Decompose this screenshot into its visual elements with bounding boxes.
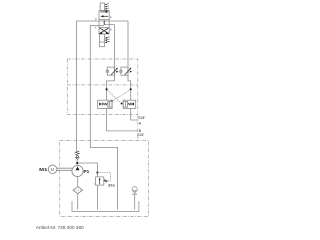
svg-text:G3/8'': G3/8'' bbox=[137, 133, 144, 137]
svg-text:M: M bbox=[51, 167, 55, 172]
svg-text:Artikel-Nr. 728 000 380: Artikel-Nr. 728 000 380 bbox=[36, 225, 84, 230]
svg-text:M1: M1 bbox=[39, 167, 48, 172]
svg-text:G3/8'': G3/8'' bbox=[138, 116, 145, 120]
svg-text:180bar: 180bar bbox=[108, 183, 116, 187]
svg-text:A: A bbox=[139, 122, 142, 126]
svg-text:P1: P1 bbox=[84, 169, 90, 174]
svg-text:B: B bbox=[110, 27, 112, 31]
svg-text:T: T bbox=[95, 26, 97, 30]
svg-text:A: A bbox=[110, 15, 112, 19]
svg-text:P: P bbox=[95, 18, 97, 22]
